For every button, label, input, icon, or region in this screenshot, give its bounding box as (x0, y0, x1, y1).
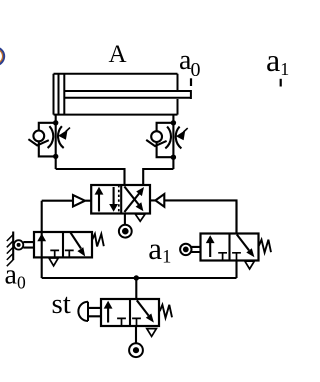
3/2 push button valve st (rest) (78, 299, 172, 357)
adjust arrow (184, 128, 188, 132)
svg-text:st: st (52, 288, 71, 320)
main line through throttle (172, 123, 174, 169)
pilot triangle left (73, 195, 91, 207)
spring return (259, 240, 271, 253)
cylinder piston rod (64, 90, 191, 99)
bypass rectangle (39, 123, 56, 157)
supply line to source (124, 214, 126, 225)
pressure source of st (129, 343, 143, 357)
pressure source of U1 (119, 225, 132, 238)
spring return (92, 234, 104, 247)
diagonal flow arrow (rest position) (70, 232, 81, 249)
svg-text:a1: a1 (266, 42, 289, 79)
cylinder A barrel (54, 74, 178, 115)
junction dot top (53, 120, 58, 125)
3/2 roller valve a0 (actuated) (7, 201, 104, 278)
blocked port T (left square) (117, 318, 126, 326)
blocked port T (left square) (50, 250, 59, 257)
blocked port T (right square) (232, 253, 241, 261)
body (34, 232, 92, 257)
exhaust triangle (147, 329, 157, 337)
adjust arrow (66, 128, 70, 132)
body (201, 234, 259, 261)
left position down arrow (113, 187, 115, 206)
body (101, 299, 159, 326)
pilot line right (to a1) (164, 200, 236, 233)
diagonal flow arrow A to R (137, 300, 149, 315)
check valve seat (146, 140, 166, 146)
check valve ball (33, 131, 44, 142)
output line up to pilot wire (235, 201, 237, 233)
push button actuator (78, 302, 88, 321)
junction dot bottom (171, 155, 176, 160)
flow arrow up (actuated square) (107, 305, 109, 323)
button stem (88, 308, 101, 316)
throttle arcs (165, 127, 171, 149)
junction dot bottom (53, 154, 58, 159)
marker tick a0 position (190, 78, 192, 86)
roller (180, 244, 191, 255)
wire cylinder left port down (55, 115, 57, 123)
supply bus wire (42, 277, 237, 279)
pilot triangle right (150, 194, 164, 207)
blocked port T (right square) (65, 250, 74, 257)
wire cylinder right port down (172, 115, 174, 123)
exhaust triangle of U1 (135, 214, 145, 221)
svg-text:a1: a1 (148, 231, 171, 267)
wall mount hatched (12, 232, 14, 261)
marker tick a1 position (280, 79, 282, 87)
svg-text:a0: a0 (5, 260, 26, 293)
main line through throttle (55, 123, 57, 169)
output/supply line through (riser to pilot, down to bus) (41, 201, 43, 278)
spring return (160, 305, 172, 318)
flow arrow up (actuated square) (209, 239, 211, 257)
junction dot top (171, 120, 176, 125)
roller stem (23, 242, 34, 248)
pilot line left (from a0) (42, 200, 73, 202)
throttle arcs (48, 126, 54, 148)
bypass rectangle (157, 123, 174, 157)
4/2 double pilot valve U1 body (91, 185, 150, 214)
wire bus to st valve (135, 278, 137, 299)
check valve seat (28, 139, 48, 145)
clipped colored list-bullet circle at left margin (0, 47, 4, 65)
blocked port T (left square) (218, 253, 227, 261)
bus junction dot (134, 275, 139, 280)
flow control valve V2 (right, throttle + check) (146, 120, 188, 169)
supply line down to bus (235, 261, 237, 279)
check valve ball (151, 131, 162, 142)
svg-text:a0: a0 (179, 45, 200, 81)
roller (14, 240, 23, 249)
3/2 roller valve a1 (rest) (180, 201, 271, 278)
right position crossed arrow P to B (124, 193, 139, 212)
svg-text:A: A (108, 41, 126, 68)
flow arrow up (37, 234, 46, 242)
roller stem (191, 247, 200, 252)
wire right FCV to valve top-right port (143, 169, 173, 185)
wire left FCV to valve top-left port (56, 169, 125, 185)
supply line down to source (135, 326, 137, 343)
exhaust triangle (245, 261, 254, 269)
blocked port T (right square) (132, 318, 141, 326)
exhaust triangle (49, 258, 58, 266)
flow control valve V1 (left, throttle + check) (28, 120, 70, 169)
dashed transition line (118, 185, 120, 214)
right position crossed arrow A to R (124, 187, 139, 206)
left position up arrow (98, 193, 100, 212)
cylinder piston (double line) (59, 74, 65, 115)
diagonal flow arrow A to R (237, 235, 249, 251)
